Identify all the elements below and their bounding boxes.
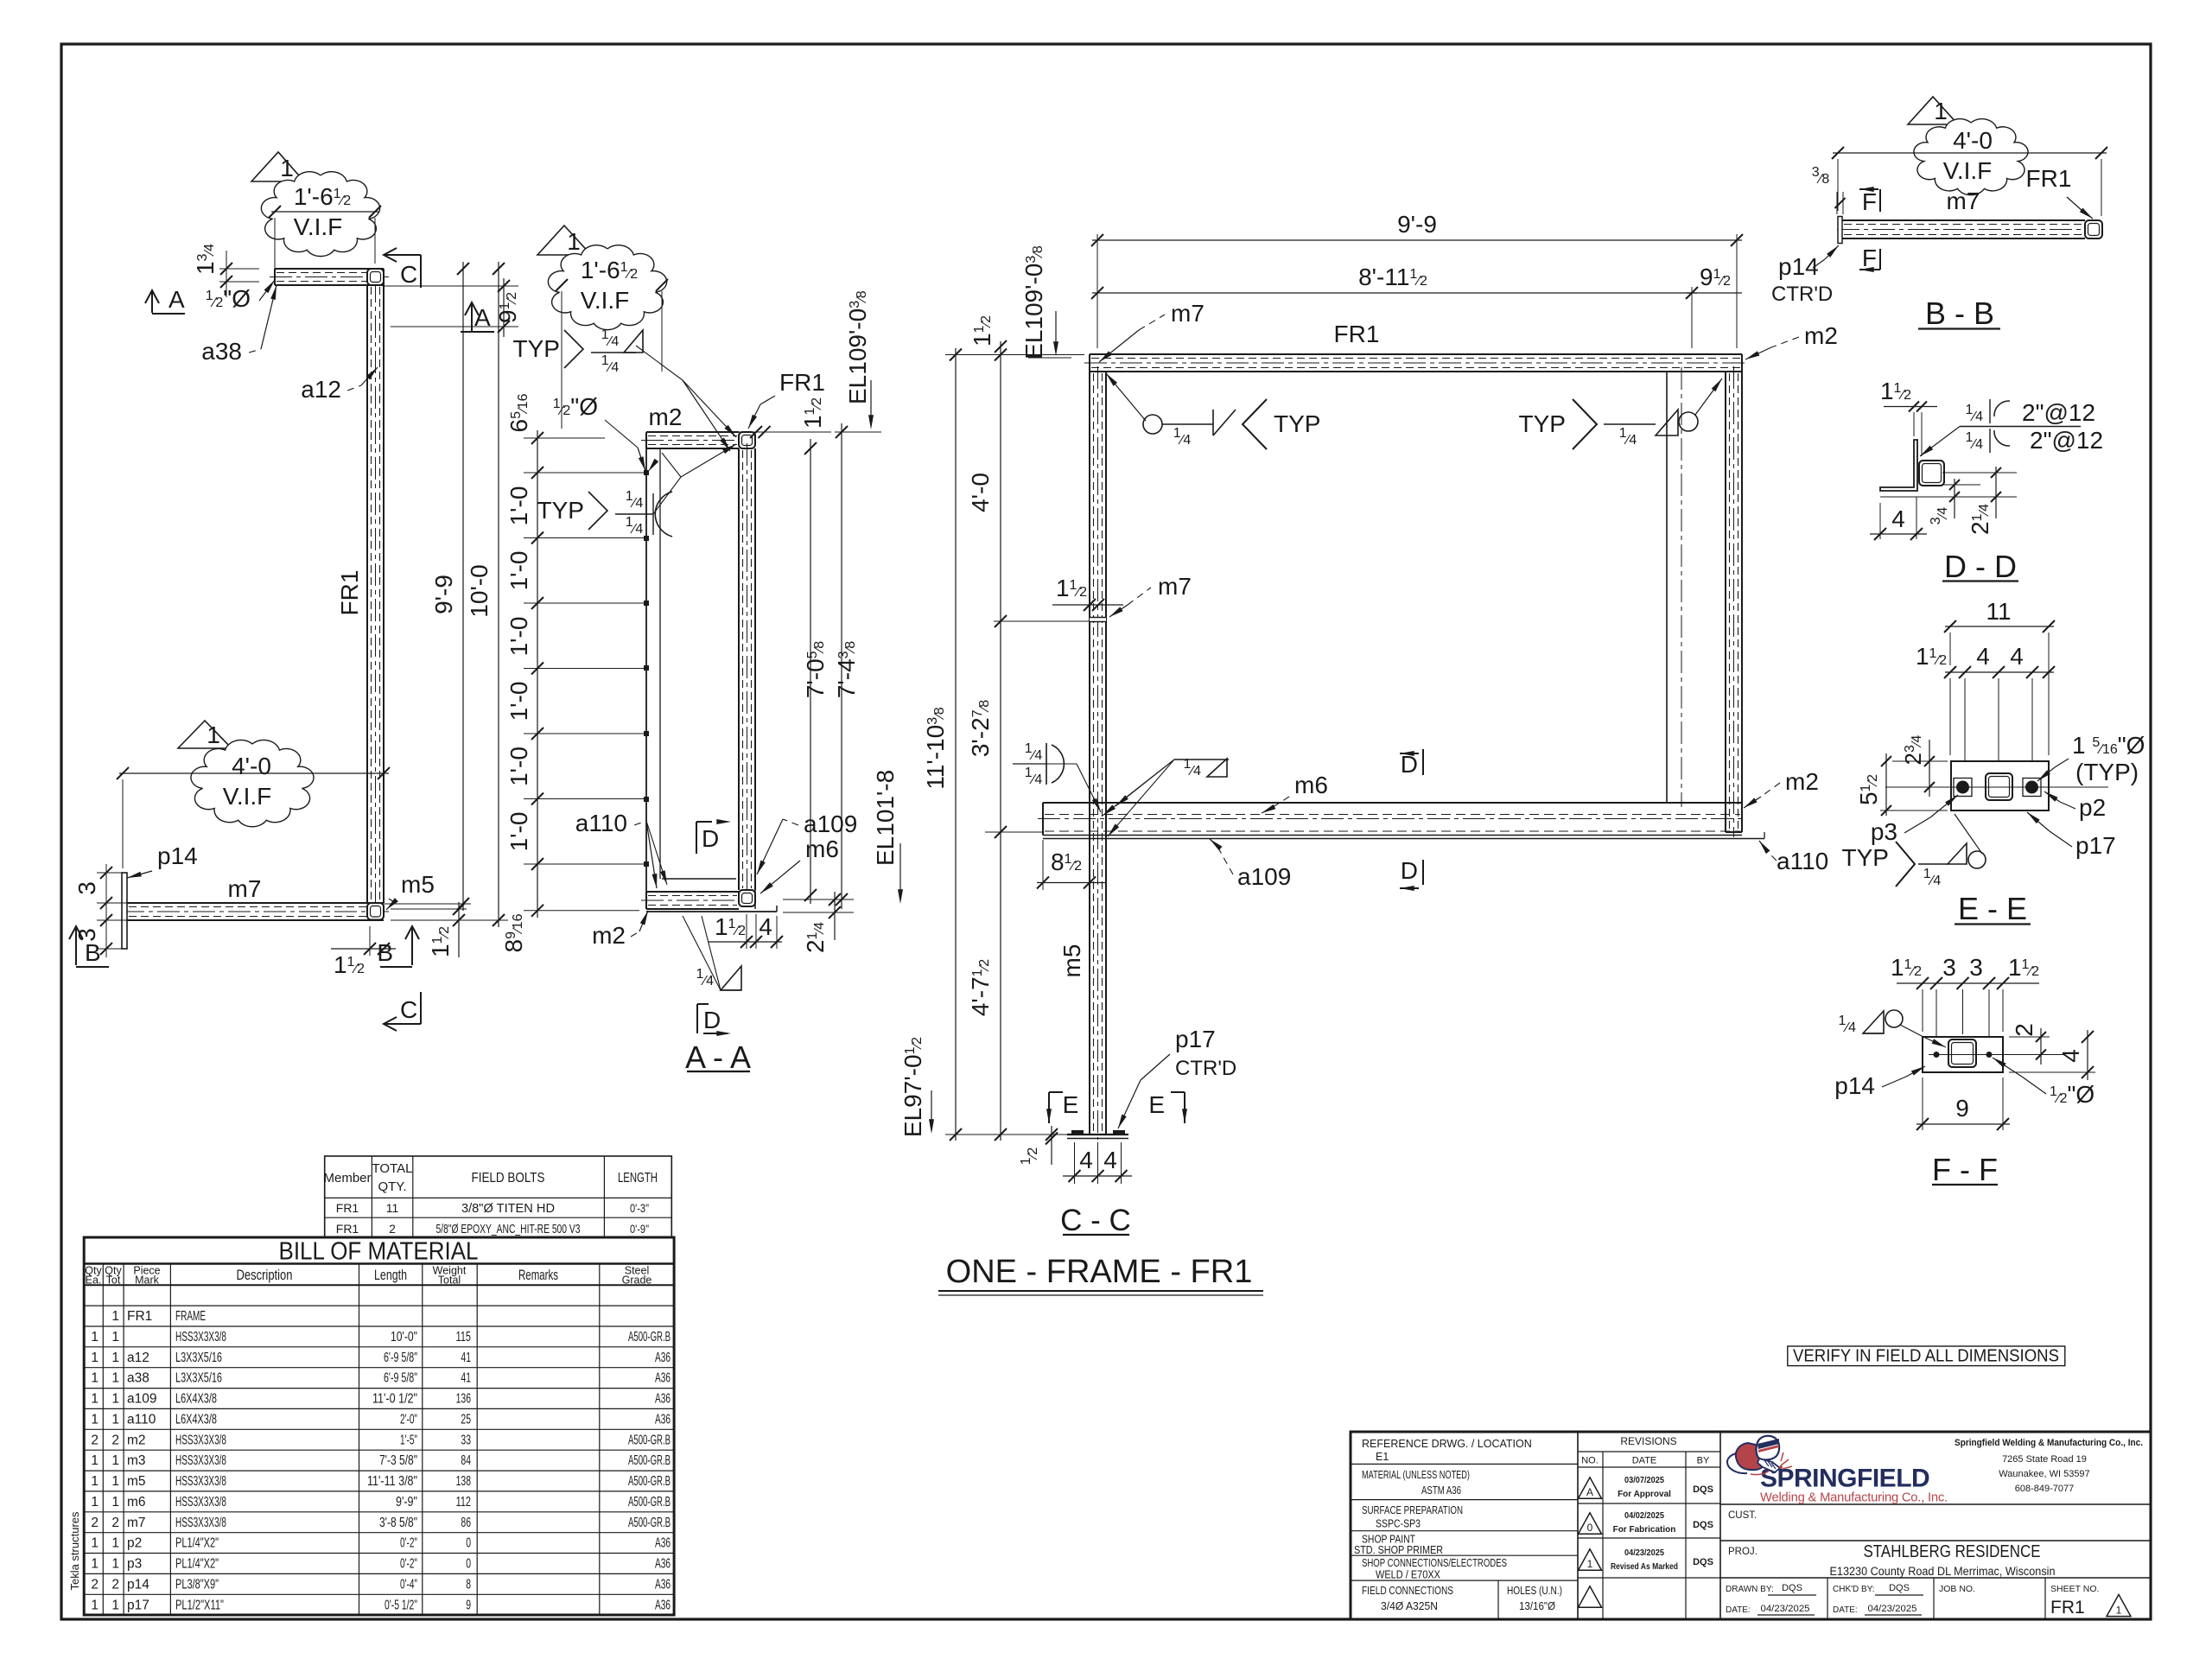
AA weld mid leaders [653,477,681,514]
svg-text:a109: a109 [804,810,857,837]
svg-text:4'-0: 4'-0 [1953,127,1993,154]
svg-text:1: 1 [1587,1558,1593,1570]
EE plate [1951,761,2049,810]
svg-text:p14: p14 [1778,253,1819,280]
svg-text:SHOP CONNECTIONS/ELECTRODES: SHOP CONNECTIONS/ELECTRODES [1362,1557,1507,1569]
CC left column m7/m5 [1089,372,1090,1135]
left view dim 3 bottom [97,919,127,921]
svg-text:04/23/2025: 04/23/2025 [1868,1604,1917,1614]
left view dim 9-9 [462,262,464,911]
BB HSS box FR1 end [2085,220,2102,238]
svg-text:p17: p17 [2075,832,2116,859]
svg-text:For Approval: For Approval [1618,1490,1671,1499]
svg-text:DQS: DQS [1693,1520,1713,1530]
svg-text:9: 9 [1955,1095,1969,1122]
svg-text:1: 1 [91,1474,99,1489]
svg-text:TYP: TYP [1519,410,1566,437]
svg-text:2: 2 [2011,1023,2037,1037]
CC left dim stack line [1000,341,1001,1141]
svg-text:4: 4 [1103,1147,1117,1173]
svg-text:TYP: TYP [513,335,560,362]
svg-text:1: 1 [91,1536,99,1551]
svg-text:p17: p17 [1175,1026,1216,1052]
svg-text:7'-3 5/8": 7'-3 5/8" [379,1453,417,1468]
left view dim 10-0 [498,262,499,927]
svg-text:4: 4 [2057,1049,2084,1063]
CC angle a109/a110 bottom line [1043,838,1764,840]
svg-text:0: 0 [466,1557,471,1572]
svg-text:a38: a38 [127,1371,149,1386]
svg-text:a109: a109 [1237,863,1291,890]
AA dim 7-0-5/8 [810,439,811,904]
svg-text:D: D [1401,857,1418,884]
svg-text:p3: p3 [127,1557,142,1572]
svg-text:m2: m2 [649,404,683,430]
svg-text:Tot: Tot [106,1274,121,1287]
svg-text:3'-8 5/8": 3'-8 5/8" [379,1516,417,1530]
EE bolt p3 left [1954,779,1972,797]
svg-text:03/07/2025: 03/07/2025 [1624,1476,1664,1485]
AA HSS box FR1 [739,432,755,448]
AA dim 1half-4 bottom [709,941,782,943]
svg-text:C: C [400,261,417,288]
svg-text:2"@12: 2"@12 [2022,399,2095,426]
left view dim 1-6half [271,211,378,213]
svg-text:FIELD BOLTS: FIELD BOLTS [472,1171,545,1185]
svg-text:DQS: DQS [1782,1583,1802,1593]
svg-text:CTR'D: CTR'D [1175,1057,1236,1080]
svg-text:D: D [703,1007,721,1033]
svg-text:1: 1 [91,1557,99,1572]
BB cloud 4-0 [1914,119,2028,195]
svg-text:FR1: FR1 [336,570,363,616]
svg-text:2: 2 [111,1433,119,1447]
svg-text:DQS: DQS [1693,1484,1713,1495]
svg-text:Welding & Manufacturing Co., I: Welding & Manufacturing Co., Inc. [1760,1491,1948,1505]
svg-text:PL1/4"X2": PL1/4"X2" [175,1536,219,1551]
CC beam m6 [1043,802,1742,804]
BB section F bottom [1859,269,1878,270]
CC section E right [1171,1091,1185,1093]
svg-text:TYP: TYP [537,497,584,524]
svg-text:04/23/2025: 04/23/2025 [1624,1548,1664,1558]
svg-text:13/16"Ø: 13/16"Ø [1519,1600,1555,1612]
CC top beam FR1 [1090,353,1742,355]
left view beam m7 bottom [127,902,384,904]
svg-text:1: 1 [111,1495,119,1510]
svg-text:Tekla structures: Tekla structures [68,1511,81,1591]
CC ext lines left [945,354,1084,356]
svg-text:2: 2 [111,1577,119,1592]
svg-text:PL1/2"X11": PL1/2"X11" [175,1598,224,1612]
svg-text:1: 1 [111,1351,119,1365]
left view triangle marker 1 top [251,152,304,181]
svg-text:F: F [1862,245,1877,271]
svg-text:a110: a110 [575,810,627,836]
AA triangle marker 1 [537,226,591,255]
svg-text:3: 3 [1942,954,1956,981]
svg-text:p2: p2 [2079,794,2106,821]
svg-text:p14: p14 [1834,1072,1875,1099]
field bolts table [325,1156,672,1237]
AA HSS box m6 [739,890,755,906]
svg-text:1'-5": 1'-5" [400,1433,417,1447]
DD HSS section [1919,461,1944,486]
svg-text:E1: E1 [1376,1451,1389,1463]
svg-text:m7: m7 [127,1516,146,1530]
CC weld TYP left [1106,373,1146,421]
svg-text:p14: p14 [157,842,198,869]
svg-text:11'-0 1/2": 11'-0 1/2" [372,1392,417,1407]
svg-text:DRAWN BY:: DRAWN BY: [1726,1585,1774,1594]
svg-text:2: 2 [91,1577,99,1592]
svg-text:A36: A36 [655,1371,671,1386]
svg-text:p2: p2 [127,1536,142,1551]
svg-text:D - D: D - D [1944,549,2017,584]
svg-text:0: 0 [1587,1522,1593,1534]
svg-text:112: 112 [456,1495,471,1510]
svg-text:V.I.F: V.I.F [581,287,630,314]
DD dim 3-4 [1942,472,2017,474]
svg-text:Description: Description [237,1267,293,1283]
svg-text:9'-9: 9'-9 [1397,211,1437,238]
AA angle a109 lines [754,875,756,909]
svg-text:A500-GR.B: A500-GR.B [628,1516,671,1530]
svg-text:DATE:: DATE: [1833,1605,1858,1615]
BB dim 4-0 VIF [1833,152,2107,154]
svg-text:p17: p17 [127,1598,149,1612]
svg-text:0'-9": 0'-9" [630,1222,649,1236]
svg-text:DQS: DQS [1693,1557,1713,1567]
svg-text:DATE: DATE [1632,1456,1657,1466]
FF dim 9 [1922,1077,1923,1130]
AA dim 2quarter [783,899,854,900]
svg-text:1: 1 [111,1330,119,1344]
svg-text:SURFACE PREPARATION: SURFACE PREPARATION [1362,1504,1463,1516]
svg-text:FR1: FR1 [1334,321,1380,347]
EE bolt centerline [1885,786,2108,788]
EE dim 11 [1949,620,1951,632]
FF dim 2 [2009,1036,2050,1038]
svg-text:4: 4 [1976,643,1990,670]
svg-text:A36: A36 [655,1598,671,1612]
AA dim 1-6half [558,284,665,286]
svg-text:A500-GR.B: A500-GR.B [628,1330,671,1344]
left view beam m2 [275,268,384,270]
svg-text:(TYP): (TYP) [2075,759,2139,785]
svg-text:4: 4 [759,913,772,940]
CC section E left [1049,1091,1063,1093]
svg-text:1: 1 [207,721,220,748]
svg-text:HSS3X3X3/8: HSS3X3X3/8 [175,1433,226,1447]
svg-text:A36: A36 [655,1536,671,1551]
EE HSS section [1986,773,2012,800]
svg-text:1: 1 [111,1536,119,1551]
svg-text:E13230 County Road DL Merrimac: E13230 County Road DL Merrimac, Wisconsi… [1830,1565,2056,1578]
left view column FR1 [366,285,368,903]
left view dim 3 top [97,872,122,874]
CC right column m3 [1725,372,1726,832]
left view HSS box m5 [367,903,384,920]
left view dim 9half [384,285,518,287]
svg-text:p14: p14 [127,1577,149,1592]
svg-text:FR1: FR1 [336,1222,359,1236]
svg-text:3: 3 [73,881,100,895]
svg-text:Mark: Mark [135,1274,160,1287]
svg-text:m2: m2 [127,1433,146,1447]
FF dims top [1897,982,2039,984]
svg-text:4: 4 [1891,505,1905,532]
svg-text:ASTM A36: ASTM A36 [1421,1484,1461,1497]
svg-text:Grade: Grade [622,1274,652,1287]
svg-text:11'-11 3/8": 11'-11 3/8" [367,1474,417,1489]
FF HSS section [1948,1039,1976,1067]
svg-text:m2: m2 [1785,768,1819,795]
svg-text:1'-0: 1'-0 [505,747,532,786]
BB section F top [1859,188,1878,190]
svg-text:Waunakee, WI 53597: Waunakee, WI 53597 [1999,1469,2089,1479]
svg-text:LENGTH: LENGTH [618,1171,658,1185]
svg-text:a109: a109 [127,1392,156,1407]
svg-text:m5: m5 [127,1474,146,1489]
svg-text:8: 8 [466,1577,471,1592]
svg-text:04/02/2025: 04/02/2025 [1624,1511,1664,1521]
BB plate p14 [1838,217,1842,244]
svg-text:HSS3X3X3/8: HSS3X3X3/8 [175,1495,226,1510]
svg-text:m6: m6 [805,836,839,862]
svg-text:4'-0: 4'-0 [967,473,994,512]
CC angle a12 lines [1666,372,1668,803]
svg-text:CHK'D BY:: CHK'D BY: [1833,1585,1875,1594]
svg-text:B: B [85,939,101,966]
svg-text:1: 1 [91,1412,99,1427]
svg-text:1: 1 [91,1495,99,1510]
CC dim half base [1028,1134,1061,1135]
bill of material table [84,1237,674,1615]
AA section D top [696,822,697,854]
svg-text:3/8"Ø TITEN HD: 3/8"Ø TITEN HD [461,1201,555,1216]
svg-text:1: 1 [111,1412,119,1427]
svg-text:EL101'-8: EL101'-8 [872,770,899,866]
svg-text:9'-9: 9'-9 [430,575,457,614]
svg-text:2"@12: 2"@12 [2030,427,2103,454]
FF dim 4 [2009,1071,2095,1073]
svg-text:CUST.: CUST. [1728,1510,1757,1521]
svg-text:Member: Member [323,1171,371,1185]
svg-text:1: 1 [1934,98,1948,124]
svg-text:m7: m7 [1171,300,1205,327]
svg-text:m5: m5 [401,871,435,898]
svg-text:a12: a12 [127,1351,149,1365]
EE dims 1half-4-4 [1945,671,2054,673]
svg-text:33: 33 [461,1433,471,1447]
svg-text:a110: a110 [1777,848,1828,874]
CC column splice m7-m5 [1090,618,1106,622]
svg-text:NO.: NO. [1581,1456,1599,1466]
left view dim 1three-quarter [219,268,259,270]
svg-text:0'-3": 0'-3" [630,1201,649,1215]
AA dim 1half top [739,431,831,433]
svg-text:V.I.F: V.I.F [294,213,343,240]
svg-text:L3X3X5/16: L3X3X5/16 [175,1371,222,1386]
svg-text:JOB NO.: JOB NO. [1939,1584,1975,1594]
svg-text:7265 State Road 19: 7265 State Road 19 [2002,1454,2087,1465]
left view dim 1half right [391,908,467,910]
svg-text:F: F [1862,188,1877,215]
svg-text:a38: a38 [201,338,242,365]
svg-text:E: E [1063,1091,1079,1118]
svg-text:A500-GR.B: A500-GR.B [628,1453,671,1468]
svg-text:2: 2 [389,1222,396,1236]
svg-text:FR1: FR1 [779,369,825,396]
DD dim 4 [1879,503,1881,539]
CC dim 11-10-3/8 [955,348,957,1141]
svg-text:41: 41 [461,1371,471,1386]
svg-text:0'-2": 0'-2" [400,1557,417,1572]
left view cloud 4-0 [191,740,314,826]
svg-text:1: 1 [91,1598,99,1612]
svg-text:DATE:: DATE: [1726,1605,1751,1615]
svg-text:PROJ.: PROJ. [1728,1547,1758,1557]
svg-text:A500-GR.B: A500-GR.B [628,1495,671,1510]
svg-text:m2: m2 [592,922,626,949]
svg-text:1'-0: 1'-0 [505,682,532,721]
svg-text:86: 86 [461,1516,471,1530]
svg-text:Total: Total [438,1274,461,1287]
svg-text:1: 1 [111,1598,119,1612]
svg-text:For Fabrication: For Fabrication [1613,1525,1676,1535]
svg-text:138: 138 [456,1474,471,1489]
AA ladder dims [524,472,646,474]
svg-text:FR1: FR1 [2050,1598,2085,1618]
svg-text:E - E: E - E [1958,891,2027,926]
svg-text:A36: A36 [655,1412,671,1427]
svg-text:m7: m7 [1158,573,1192,600]
svg-text:TOTAL: TOTAL [372,1161,413,1176]
svg-text:A36: A36 [655,1577,671,1592]
svg-text:6'-9 5/8": 6'-9 5/8" [384,1351,417,1365]
svg-text:A36: A36 [655,1557,671,1572]
svg-text:V.I.F: V.I.F [1943,157,1993,184]
svg-text:p3: p3 [1871,818,1897,845]
svg-text:Remarks: Remarks [518,1267,558,1283]
left view section C marker top [384,254,421,256]
svg-text:9'-9": 9'-9" [396,1495,417,1510]
BB triangle marker 1 [1908,97,1958,124]
svg-text:FIELD CONNECTIONS: FIELD CONNECTIONS [1362,1585,1453,1597]
left view dim 1half bottom [331,948,396,950]
left view plate p14 [122,873,127,949]
svg-text:136: 136 [456,1392,471,1407]
AA angle a38 [645,448,647,906]
svg-text:0'-2": 0'-2" [400,1536,417,1551]
svg-text:8'-111⁄2: 8'-111⁄2 [1358,264,1427,290]
AA beam m2 top [646,431,739,433]
svg-text:1: 1 [111,1392,119,1407]
svg-text:1: 1 [91,1351,99,1365]
svg-text:11: 11 [386,1201,399,1215]
FF plate p14 [1923,1037,2003,1072]
CC dim 9-9 [1096,234,1098,348]
svg-text:TYP: TYP [1842,844,1889,871]
FF hole centerline [1929,1054,2065,1056]
svg-text:PL1/4"X2": PL1/4"X2" [175,1557,219,1572]
title block [1351,1432,2151,1619]
CC base plate p17 [1067,1134,1128,1135]
svg-text:BILL OF MATERIAL: BILL OF MATERIAL [279,1238,479,1266]
svg-text:A36: A36 [655,1351,671,1365]
svg-text:A: A [168,286,185,313]
svg-text:L6X4X3/8: L6X4X3/8 [175,1412,217,1427]
svg-text:2: 2 [91,1433,99,1447]
AA section D bottom [696,1004,698,1033]
svg-text:A - A: A - A [685,1039,751,1075]
svg-text:1: 1 [91,1371,99,1386]
svg-text:ONE - FRAME - FR1: ONE - FRAME - FR1 [946,1254,1253,1290]
svg-text:1: 1 [111,1557,119,1572]
svg-text:C - C: C - C [1060,1204,1131,1237]
svg-text:BY: BY [1697,1456,1710,1466]
svg-text:REFERENCE DRWG. / LOCATION: REFERENCE DRWG. / LOCATION [1362,1438,1532,1450]
svg-text:1: 1 [280,155,294,181]
svg-text:11: 11 [1986,598,2011,625]
svg-text:1: 1 [111,1474,119,1489]
svg-text:L6X4X3/8: L6X4X3/8 [175,1392,217,1407]
svg-text:PL3/8"X9": PL3/8"X9" [175,1577,219,1592]
svg-text:2'-0": 2'-0" [400,1412,417,1427]
svg-text:SSPC-SP3: SSPC-SP3 [1376,1518,1421,1530]
svg-text:m7: m7 [1947,188,1980,214]
left view cloud 1-6half [261,172,379,257]
EE dim 5half [1885,753,1887,816]
svg-text:1'-0: 1'-0 [505,551,532,591]
CC section D top [1400,753,1419,754]
svg-text:E: E [1148,1091,1165,1118]
svg-text:MATERIAL (UNLESS NOTED): MATERIAL (UNLESS NOTED) [1362,1469,1470,1481]
svg-text:1: 1 [567,228,581,255]
svg-text:1'-0: 1'-0 [505,486,532,526]
svg-text:3: 3 [1969,954,1983,981]
left view section C marker bottom [384,1023,421,1025]
svg-text:1: 1 [91,1330,99,1344]
CC dim 8-11half [1691,287,1693,348]
svg-text:04/23/2025: 04/23/2025 [1761,1604,1810,1614]
svg-text:REVISIONS: REVISIONS [1620,1435,1676,1447]
svg-text:0: 0 [466,1536,471,1551]
svg-text:DQS: DQS [1889,1583,1910,1593]
left view section A marker left [151,290,153,313]
svg-text:1: 1 [111,1309,119,1324]
left view triangle marker 1 bottom [178,721,232,748]
svg-text:HSS3X3X3/8: HSS3X3X3/8 [175,1453,226,1468]
svg-text:4: 4 [2010,643,2024,670]
svg-text:HOLES (U.N.): HOLES (U.N.) [1507,1585,1562,1597]
svg-text:m5: m5 [1058,944,1085,978]
left view HSS section box top [367,269,384,285]
svg-text:84: 84 [461,1453,471,1468]
verify in field note [1788,1346,2065,1366]
BB beam m7 [1842,219,2085,221]
FF hole left [1934,1052,1940,1058]
left view section B marker left [75,926,77,965]
svg-text:10'-0: 10'-0 [466,564,493,617]
svg-text:4'-0: 4'-0 [232,753,271,779]
left view section B marker right [411,926,413,965]
svg-text:m6: m6 [127,1495,146,1510]
svg-text:3/4Ø A325N: 3/4Ø A325N [1381,1600,1438,1612]
svg-text:A36: A36 [655,1392,671,1407]
svg-text:m2: m2 [1804,322,1838,349]
